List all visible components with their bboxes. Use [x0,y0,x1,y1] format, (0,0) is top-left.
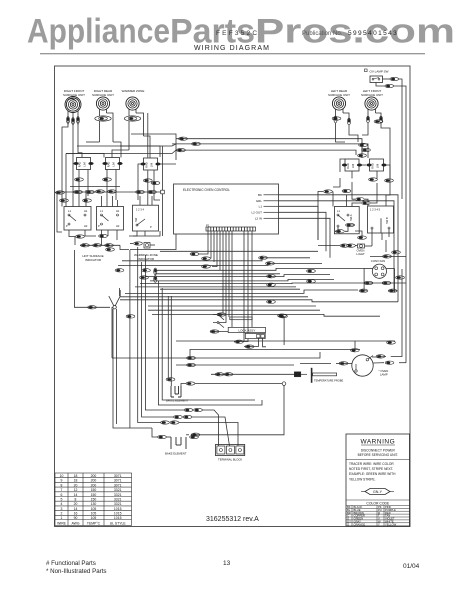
wire left-coil connectors row [336,122,391,179]
connector sw1 bottom pair [76,234,108,238]
connector below limiter C pair2 [151,181,160,184]
connector bake right wire a [191,433,200,436]
wire left EOC vertical [162,146,164,236]
wire terminal block feeds [0,0,1,1]
wire gauge table [55,473,132,526]
svg-text:90: 90 [74,516,78,520]
connector ind row e [115,269,124,272]
svg-text:YELLOW: YELLOW [385,522,397,526]
svg-text:WIRE: WIRE [57,521,67,525]
conv fan motor [372,264,386,278]
connector bake right [190,435,199,438]
svg-text:200: 200 [91,479,97,483]
svg-text:# Functional Parts: # Functional Parts [46,560,96,567]
connector broil feed a [187,356,196,359]
connector RR [95,116,111,142]
connector stair a1 [161,421,170,424]
connector cluster left coils b [362,148,371,151]
wire left coil drops [62,123,160,207]
svg-text:LAMP: LAMP [380,373,388,377]
svg-text:14: 14 [74,493,78,497]
svg-text:9: 9 [61,479,63,483]
warning text [358,449,398,458]
EOC pin drops [199,231,252,342]
connector fan c [359,289,368,292]
svg-text:SURFACE UNIT: SURFACE UNIT [92,93,114,97]
svg-text:150: 150 [91,488,97,492]
svg-text:12: 12 [74,488,78,492]
svg-text:01/04: 01/04 [403,563,420,570]
connector ind row f [142,269,151,272]
connector below limiter B [103,178,112,181]
connector right bus c [387,341,396,344]
svg-text:TEMPERATURE PROBE: TEMPERATURE PROBE [314,378,343,382]
svg-text:BEFORE SERVICING UNIT.: BEFORE SERVICING UNIT. [358,453,398,457]
connector indicator row a [81,244,90,247]
svg-text:6: 6 [61,493,63,497]
connector fan a [364,281,373,284]
svg-text:316255312 rev.A: 316255312 rev.A [206,516,259,523]
surface unit RR leads [100,109,114,142]
connector right bus a [392,251,401,254]
wire broil leads [168,296,186,386]
svg-text:Publication No.: Publication No. [302,31,343,37]
svg-text:3321: 3321 [114,502,122,506]
connector lsw bottom row b [340,244,349,247]
svg-text:H2: H2 [84,224,88,228]
connector RF leads [66,117,79,125]
warming zone lamp [130,242,155,248]
connector eoc drop b [202,257,211,260]
svg-text:UL STYLE: UL STYLE [110,521,127,525]
connector cluster left coils a [359,143,368,146]
surface unit LF coil [365,97,378,110]
wire lamp leads [300,318,406,363]
connector lamp lead a [339,362,348,365]
surface unit LR label [328,89,350,97]
connector mesh e [307,269,316,272]
connector mid left2 [126,315,135,318]
wire lamp switch [376,79,406,252]
connector lock b [235,340,244,343]
connector broil right [186,382,195,385]
tracer wire note [349,462,396,482]
svg-text:YELLOW STRIPE.: YELLOW STRIPE. [349,477,376,481]
svg-text:3321: 3321 [114,498,122,502]
wire left sw drops [318,178,390,240]
connector mesh c [267,275,276,278]
connector probe [215,373,224,376]
svg-text:130: 130 [91,502,97,506]
oven lamp label [379,369,389,377]
connector WZ [124,116,140,150]
svg-text:GRL: GRL [256,199,263,203]
svg-text:AWG: AWG [72,521,80,525]
diagram border [55,66,411,527]
lock switch levers [213,314,224,328]
svg-text:H1: H1 [116,209,120,213]
connector fan d [388,289,397,292]
wire sw bottoms [69,230,160,250]
svg-text:10: 10 [60,474,64,478]
wire conv fan [360,256,406,292]
svg-text:LOCK ASSY: LOCK ASSY [239,329,256,333]
connector probe b [224,373,233,376]
wire top runs to right [66,134,368,200]
svg-text:SURFACE UNIT: SURFACE UNIT [361,93,383,97]
connector lock c [245,345,254,348]
oven lamp circle [352,355,373,376]
hot surface indicator label [82,254,103,262]
lock assy cam [230,317,252,320]
svg-text:WARNING: WARNING [360,439,395,446]
connector mesh f [307,280,316,283]
connector fan b [382,281,391,284]
connector mesh b [266,262,275,265]
svg-text:13: 13 [223,560,231,567]
svg-text:3071: 3071 [114,483,122,487]
wire probe left [191,374,294,435]
wire bake leads [167,435,189,437]
svg-text:1015: 1015 [114,516,122,520]
svg-text:SW B: SW B [385,217,389,224]
connector bake left [158,435,167,438]
surface unit LR coil [332,97,345,110]
svg-text:DISCONNECT POWER: DISCONNECT POWER [361,449,396,453]
svg-text:* Non-Illustrated Parts: * Non-Illustrated Parts [46,568,107,575]
connector stair a2 [170,421,179,424]
svg-text:Y: Y [378,522,380,526]
svg-text:150: 150 [91,493,97,497]
connector row sw3 top [136,190,157,193]
left surface switch (double) [334,207,359,234]
limiter D [342,159,362,171]
junction mid [113,306,116,309]
svg-text:8: 8 [61,483,63,487]
svg-text:5: 5 [61,498,63,502]
svg-text:3071: 3071 [114,479,122,483]
limiter B [102,158,122,170]
oven light box [357,244,366,256]
connector lamp lead c [385,361,394,364]
warmer zone label [122,89,145,93]
EOC terminal strip P1 [206,224,256,232]
junction probe circle [282,382,286,386]
connector stair c1 [184,408,193,411]
svg-text:LIGHT: LIGHT [357,252,366,256]
connectors above sw row [56,190,95,202]
svg-text:P: P [66,224,68,228]
connector broil left [166,378,175,381]
svg-text:200: 200 [91,474,97,478]
connector indicator row d [106,248,115,251]
connector top right coil a [332,117,341,120]
svg-text:7: 7 [61,488,63,492]
connector indicator row b [93,244,102,247]
svg-text:H1: H1 [84,209,88,213]
svg-text:1: 1 [61,516,63,520]
warning title [360,439,395,446]
connector above left sw d [362,201,371,204]
oven lamp switch label [365,69,389,74]
svg-text:3321: 3321 [114,488,122,492]
connector run3 [177,148,186,151]
svg-text:3: 3 [61,507,63,511]
svg-text:18: 18 [74,474,78,478]
svg-text:20: 20 [74,483,78,487]
connector eoc drop a [190,252,199,255]
svg-text:NOTED FIRST, STRIPE NEXT.: NOTED FIRST, STRIPE NEXT. [349,467,393,471]
svg-text:4: 4 [61,502,63,506]
connector run1 [179,137,188,140]
svg-text:CONV FAN: CONV FAN [371,259,385,263]
connector lsw bottom row c [347,244,356,247]
wire left sw bottoms [335,225,389,246]
wire lock assy [210,316,284,347]
connector lock lever [217,313,226,316]
warmer switch 3 [133,205,159,231]
surface switch 1 [64,207,91,231]
connector eoc drop c [202,265,211,268]
svg-text:8: 8 [75,498,77,502]
connector right bus b [396,276,405,279]
connector fan feed [383,255,392,258]
svg-text:O: O [347,522,349,526]
connector mid left [88,306,97,309]
connector LF leads [366,116,382,123]
surface unit RR label [92,89,114,97]
connector run2 [192,142,201,145]
connector lock a [210,330,219,333]
svg-text:150: 150 [91,498,97,502]
connector above left sw c [356,198,365,201]
wire limiter row horiz [66,146,160,190]
svg-text:SURFACE UNIT: SURFACE UNIT [328,93,350,97]
connector lamp sw 1 [390,77,399,80]
svg-text:Appliance: Appliance [27,13,170,51]
terminal block [215,445,244,462]
svg-text:14: 14 [74,507,78,511]
connector below limiter A [75,178,84,181]
svg-text:18: 18 [74,479,78,483]
connector ind row g [140,276,149,279]
limiter E [366,159,386,171]
connector stair b1 [174,415,183,418]
wire oven light feed [318,245,372,247]
connector mesh a [259,256,268,259]
warning box [346,434,410,526]
connector row sw2 top [96,190,117,193]
connector below limE [385,179,394,182]
surface unit RF label [63,89,85,97]
svg-text:5995401543: 5995401543 [348,30,398,37]
svg-text:P: P [150,225,152,229]
connector below limiter C pair1 [143,179,152,182]
title rule [40,53,425,55]
svg-text:BAKE ELEMENT: BAKE ELEMENT [165,452,187,456]
svg-text:1 2 3 4 5: 1 2 3 4 5 [370,208,381,212]
svg-text:L2 OUT: L2 OUT [251,211,262,215]
connector indicator row c [105,244,114,247]
connector lamp lead b [376,355,385,358]
svg-text:ELECTRONIC OVEN CONTROL: ELECTRONIC OVEN CONTROL [183,188,230,192]
svg-text:L2 IN: L2 IN [255,217,262,221]
surface unit LR leads [336,109,350,120]
svg-text:SW: SW [134,217,138,222]
wire sw tops [55,187,161,233]
sensor probe [294,368,343,383]
svg-text:200: 200 [91,483,97,487]
connector stair c2 [194,408,203,411]
connector lsw bottom row a [358,236,367,239]
horizontal mesh runs [118,234,406,316]
limiter A [73,158,93,170]
lock assy box [228,327,265,332]
connector below left sw pair2 [336,230,345,233]
svg-text:105: 105 [91,507,97,511]
tracer example symbol [361,489,394,495]
svg-text:1015: 1015 [114,507,122,511]
svg-text:H2: H2 [116,224,120,228]
left mid vertical bundle [74,247,255,446]
svg-text:BROIL ELEMENT: BROIL ELEMENT [166,399,189,403]
svg-text:ORANGE: ORANGE [354,522,366,526]
limiter C [140,158,160,170]
right bus verticals [381,155,406,363]
connector mesh g [267,300,276,303]
svg-text:3071: 3071 [114,474,122,478]
surface switch 2 [97,207,124,231]
electronic oven control U1 [174,184,279,234]
svg-text:TEMP°C: TEMP°C [87,521,101,525]
lock assy sub box [245,333,265,338]
wire warmer drop [147,113,149,205]
surface unit RF coil [65,97,81,113]
warning divider [346,459,410,461]
svg-text:20: 20 [74,502,78,506]
svg-text:GN-Y: GN-Y [373,490,383,494]
wire gauge table text [57,474,126,525]
svg-text:105: 105 [91,516,97,520]
connector top right coil b [374,120,383,123]
svg-text:INDICATOR: INDICATOR [85,258,102,262]
left front switch box [368,206,394,233]
surface unit RR coil [96,97,109,110]
color code table [346,500,410,526]
connector above left sw b [342,189,351,192]
svg-text:1 2 3 4: 1 2 3 4 [136,208,144,212]
watermark AppliancePartsPros.com [27,13,455,51]
broil element [166,386,189,403]
connector vertical pair a [154,268,157,275]
warmer zone coil [126,97,139,110]
svg-text:BK: BK [258,193,262,197]
connector LR leads [334,116,351,125]
svg-text:TERMINAL BLOCK: TERMINAL BLOCK [218,458,242,462]
connector below left sw pair [346,223,355,226]
svg-text:COLOR CODE: COLOR CODE [366,501,390,505]
surface unit RF leads [68,111,78,125]
bake element [165,437,187,456]
connector lock right [279,315,288,318]
connector cluster left coils c [358,154,367,157]
svg-text:WARMER ZONE: WARMER ZONE [122,89,145,93]
junction left EOC [161,190,165,194]
surface unit LF label [361,89,383,97]
svg-text:SW A: SW A [349,214,353,221]
svg-text:L1: L1 [259,205,263,209]
connector lamp top [350,349,359,352]
connector lamp sw 2 [385,84,394,87]
svg-text:WIRING DIAGRAM: WIRING DIAGRAM [194,45,270,52]
svg-text:3321: 3321 [114,493,122,497]
connector mesh h [278,314,287,317]
warming zone indicator label [134,253,158,261]
connector broil feed b [187,363,196,366]
connector mesh d [267,283,276,286]
wire mid diagonals [109,288,120,306]
connector vertical pair b [154,276,157,283]
horizontal mesh runs lower [112,341,395,365]
svg-text:FEF352C: FEF352C [216,30,259,37]
connector stair b2 [183,415,192,418]
svg-text:EXAMPLE: GREEN WIRE WITH: EXAMPLE: GREEN WIRE WITH [349,472,396,476]
surface unit LF leads [368,109,381,118]
svg-text:OV LAMP SW: OV LAMP SW [370,70,389,74]
wire eoc right pins [279,195,399,258]
svg-text:TRACER WIRE: WIRE COLOR: TRACER WIRE: WIRE COLOR [349,462,394,466]
warmer zone leads [129,109,144,136]
oven lamp switch box [370,76,383,83]
connector below limD [369,178,378,181]
svg-text:P: P [98,224,100,228]
connector above left sw a [324,190,333,193]
bottom wire staircase [152,400,262,437]
